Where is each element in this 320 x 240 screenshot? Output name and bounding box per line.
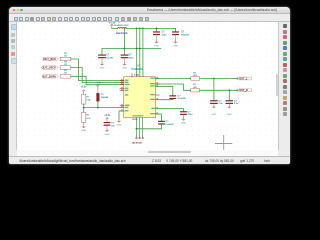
- wire VNEG to C10: [155, 114, 161, 121]
- wire vdd drop pin DVDD: [141, 28, 143, 77]
- wire R7 to OUT_R: [199, 89, 236, 91]
- capacitor C1: [98, 55, 106, 56]
- diode D1: [96, 93, 99, 101]
- C6 stub: [212, 104, 214, 107]
- wire rail drop to C4: [174, 28, 176, 31]
- wire XSMT node to U1: [83, 107, 123, 109]
- svg-text:OUT_L: OUT_L: [239, 76, 248, 80]
- C1 lower stub: [101, 58, 103, 62]
- U1 pin names left: [124, 80, 129, 112]
- wire vdd drop pin AVDD: [135, 28, 137, 77]
- wire R4 to node: [82, 104, 84, 108]
- power flag R4: [82, 90, 84, 94]
- svg-text:+3.3v: +3.3v: [80, 85, 87, 88]
- ground below C2: [123, 62, 125, 64]
- svg-text:GND: GND: [211, 114, 216, 116]
- R5 lower stub: [82, 122, 84, 125]
- capacitor C6: [210, 100, 218, 101]
- wire C1 stub: [101, 49, 103, 55]
- wire C8 to CAPM: [155, 98, 172, 100]
- svg-text:GND: GND: [99, 67, 104, 69]
- junction rail cap C3: [155, 28, 157, 30]
- wire vdd drop to C2: [123, 28, 125, 54]
- ground U1 left: [118, 119, 120, 121]
- U1 left pins: [120, 80, 124, 82]
- power flag D1: [96, 85, 98, 93]
- wire node to R5: [82, 108, 84, 113]
- junction R4 node: [82, 107, 84, 109]
- power flag C5: [105, 118, 107, 122]
- svg-text:2.2u/16V: 2.2u/16V: [177, 98, 186, 100]
- global label OUT_L: [236, 78, 237, 79]
- svg-text:+3.3V: +3.3V: [108, 22, 115, 25]
- wire D1 to node: [96, 101, 98, 107]
- wire vdd drop pin CPVDD: [138, 28, 140, 77]
- svg-text:10u/16: 10u/16: [106, 58, 113, 60]
- C2 lower stub: [123, 58, 125, 62]
- svg-text:BLM2012 1R0: BLM2012 1R0: [114, 25, 129, 27]
- capacitor C7: [225, 100, 233, 101]
- svg-text:220n: 220n: [187, 114, 193, 116]
- svg-text:+3.3v: +3.3v: [104, 114, 111, 117]
- resistor R7: [191, 89, 200, 92]
- resistor R3: [60, 75, 70, 78]
- svg-text:10u/16V: 10u/16V: [181, 34, 190, 36]
- power flag +3.3V: [110, 24, 112, 28]
- ground below C4: [174, 40, 176, 42]
- U1 right pins: [155, 78, 159, 80]
- capacitor C3: [153, 31, 160, 32]
- svg-text:max 10mA: max 10mA: [116, 32, 128, 35]
- bottom pin names: [132, 115, 143, 116]
- svg-text:GND: GND: [122, 67, 127, 69]
- svg-text:GND: GND: [173, 45, 178, 47]
- junction rail2 x124: [123, 48, 125, 50]
- C4 lower stub: [174, 35, 176, 40]
- svg-text:OUT_LRCK: OUT_LRCK: [41, 66, 56, 70]
- C5 lower stub: [106, 126, 108, 129]
- svg-text:GND: GND: [226, 114, 231, 116]
- C3 upper stub: [155, 28, 157, 31]
- cursor crosshair: [215, 136, 231, 151]
- svg-text:13 11 9: 13 11 9: [132, 119, 137, 121]
- global label OUT_BCK: [43, 57, 58, 60]
- capacitor C10: [158, 121, 165, 122]
- wire to C7: [228, 90, 230, 100]
- vertical scrollbar thumb: [276, 74, 278, 96]
- svg-text:GND: GND: [181, 123, 186, 125]
- wire BCK to U1: [70, 59, 123, 81]
- U1 left pin numbers: [121, 79, 122, 111]
- resistor R1: [60, 57, 70, 60]
- ground below C1: [101, 62, 103, 64]
- svg-text:GND: GND: [81, 130, 86, 132]
- capacitor C9: [180, 111, 187, 112]
- C9 lower stub: [182, 115, 184, 118]
- wire OUTL to R6: [155, 78, 191, 80]
- svg-text:OUT_DATA: OUT_DATA: [41, 74, 55, 78]
- capacitor C2: [120, 55, 128, 56]
- ground below C9: [182, 118, 184, 120]
- ground arrow below C7: [227, 107, 231, 109]
- wire to C9: [155, 109, 183, 111]
- junction rail x124: [123, 28, 125, 30]
- svg-text:+3.3v: +3.3v: [95, 82, 102, 85]
- global label OUT_DATA: [43, 75, 58, 78]
- U1 right pin numbers: [156, 77, 157, 114]
- wire CAPP to C8: [155, 86, 172, 95]
- global label OUT_R: [236, 90, 237, 91]
- resistor R4: [81, 94, 85, 104]
- svg-text:100n: 100n: [128, 58, 134, 60]
- junction rail x142: [142, 28, 144, 30]
- junction rail x139: [138, 28, 140, 30]
- svg-text:9 1 20: 9 1 20: [134, 74, 139, 76]
- svg-text:OUT_BCK: OUT_BCK: [43, 57, 56, 61]
- U1 pin names right: [150, 78, 155, 115]
- svg-text:1A0 B0 D0: 1A0 B0 D0: [131, 142, 142, 145]
- svg-text:OUT_R: OUT_R: [239, 88, 248, 92]
- wire DATA to U1: [70, 76, 123, 84]
- svg-text:GND: GND: [104, 134, 109, 136]
- junction bottom pin: [135, 128, 137, 130]
- ground below R5: [82, 125, 84, 127]
- grid dots backdrop: [17, 22, 278, 150]
- ground below C5: [106, 129, 108, 131]
- junction OUT_L: [213, 78, 215, 80]
- wire R6 to OUT_L: [199, 78, 236, 80]
- wire LRCK to U1: [70, 68, 123, 83]
- junction OUT_R: [228, 89, 230, 91]
- wire to C6: [212, 79, 214, 101]
- wire OUTR to R7: [155, 84, 191, 90]
- ferrite bead L1: [117, 26, 126, 29]
- junction XSMT node: [97, 107, 99, 109]
- junction rail x136: [135, 28, 137, 30]
- capacitor C8: [169, 95, 176, 96]
- resistor R5: [81, 113, 85, 123]
- wire decoupling rail: [102, 48, 161, 50]
- svg-text:2.2u/16V: 2.2u/16V: [165, 124, 174, 126]
- C7 stub: [228, 104, 230, 107]
- U1 bottom pins open ends: [135, 118, 137, 138]
- junction rail2 x139: [138, 48, 140, 50]
- svg-text:1N4148: 1N4148: [100, 97, 108, 99]
- wire U1 to ground: [119, 111, 124, 119]
- global label OUT_LRCK: [43, 66, 58, 69]
- U1 top pin: [131, 74, 133, 78]
- resistor R6: [191, 77, 200, 80]
- resistor R2: [60, 66, 70, 69]
- svg-text:GND: GND: [154, 45, 159, 47]
- capacitor C5: [103, 122, 110, 123]
- capacitor C4: [172, 31, 179, 32]
- C3 lower stub: [155, 35, 157, 40]
- svg-text:100n: 100n: [161, 34, 167, 36]
- ground arrow below C6: [211, 107, 215, 109]
- wire C10 return: [136, 125, 161, 129]
- wire +3.3V rail right: [126, 27, 175, 29]
- svg-text:GND: GND: [116, 124, 121, 126]
- junction rail2 x136: [135, 48, 137, 50]
- IC U1 PCM5101A body: [124, 77, 156, 118]
- ground below C3: [155, 40, 157, 42]
- wire +3.3V rail left: [111, 27, 117, 29]
- svg-text:PCM5101A: PCM5101A: [131, 68, 143, 71]
